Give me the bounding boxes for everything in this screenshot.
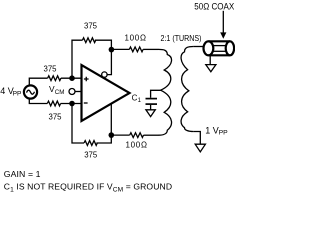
wire output to 100 ohm bottom [111, 134, 129, 136]
label + input [84, 77, 89, 82]
svg-text:GAIN = 1: GAIN = 1 [4, 169, 41, 179]
svg-text:CM: CM [55, 89, 65, 96]
wire to + input [61, 77, 82, 79]
svg-text:375: 375 [84, 151, 98, 160]
resistor 100 ohm top [129, 47, 143, 52]
resistor RF 375 bottom [84, 141, 97, 146]
wire output node down to bubble [107, 50, 111, 75]
ground coax shield [209, 55, 211, 64]
node - input junction [69, 101, 75, 107]
coax inner lines [213, 45, 226, 47]
resistor RF 375 top [82, 38, 95, 43]
transformer T1 primary winding [159, 49, 172, 135]
svg-text:50Ω COAX: 50Ω COAX [194, 1, 234, 11]
svg-text:C1 IS NOT REQUIRED IF VCM = GR: C1 IS NOT REQUIRED IF VCM = GROUND [4, 182, 172, 194]
node output top [109, 47, 115, 53]
wire source bottom [29, 98, 47, 103]
svg-text:375: 375 [84, 21, 98, 30]
wire secondary top to coax [193, 46, 204, 48]
svg-text:375: 375 [48, 113, 62, 122]
wire secondary bottom to ground [193, 132, 200, 145]
svg-text:100Ω: 100Ω [126, 140, 148, 149]
wire C1 tap [151, 90, 162, 98]
pin VCM circle [75, 91, 81, 93]
wire source top [29, 78, 47, 86]
wire output to 100 ohm top [111, 48, 129, 50]
svg-text:1 V: 1 V [205, 125, 219, 135]
transformer T1 secondary winding [181, 47, 193, 132]
wire feedback rail bottom [72, 104, 84, 144]
label - input [84, 102, 88, 104]
source VS 4Vpp [24, 85, 37, 98]
wire feedback rail top [72, 40, 82, 78]
svg-text:375: 375 [43, 65, 57, 74]
svg-text:2:1 (TURNS): 2:1 (TURNS) [161, 33, 202, 43]
wire feedback top to output node [95, 40, 112, 49]
ground secondary [195, 144, 205, 152]
node + input junction [69, 75, 75, 81]
arrow to coax [222, 11, 224, 33]
wire 100 ohm bottom to transformer [144, 134, 159, 136]
wire feedback bottom to output node [96, 135, 111, 143]
node output bottom [109, 132, 115, 138]
resistor 100 ohm bottom [130, 133, 144, 138]
ground C1 [146, 110, 155, 117]
resistor R 375 bottom-left [47, 101, 60, 106]
wire to - input [61, 103, 82, 105]
op-amp U1 triangle [82, 65, 130, 121]
svg-text:100Ω: 100Ω [125, 33, 147, 42]
wire amp bottom output [110, 103, 112, 135]
coax connector body [208, 40, 230, 42]
output bubble [102, 72, 107, 77]
capacitor C1 [146, 98, 158, 100]
svg-text:PP: PP [219, 130, 229, 137]
svg-text:PP: PP [13, 91, 22, 98]
resistor R 375 top-left [48, 76, 61, 81]
wire 100 ohm top to transformer [143, 48, 158, 50]
